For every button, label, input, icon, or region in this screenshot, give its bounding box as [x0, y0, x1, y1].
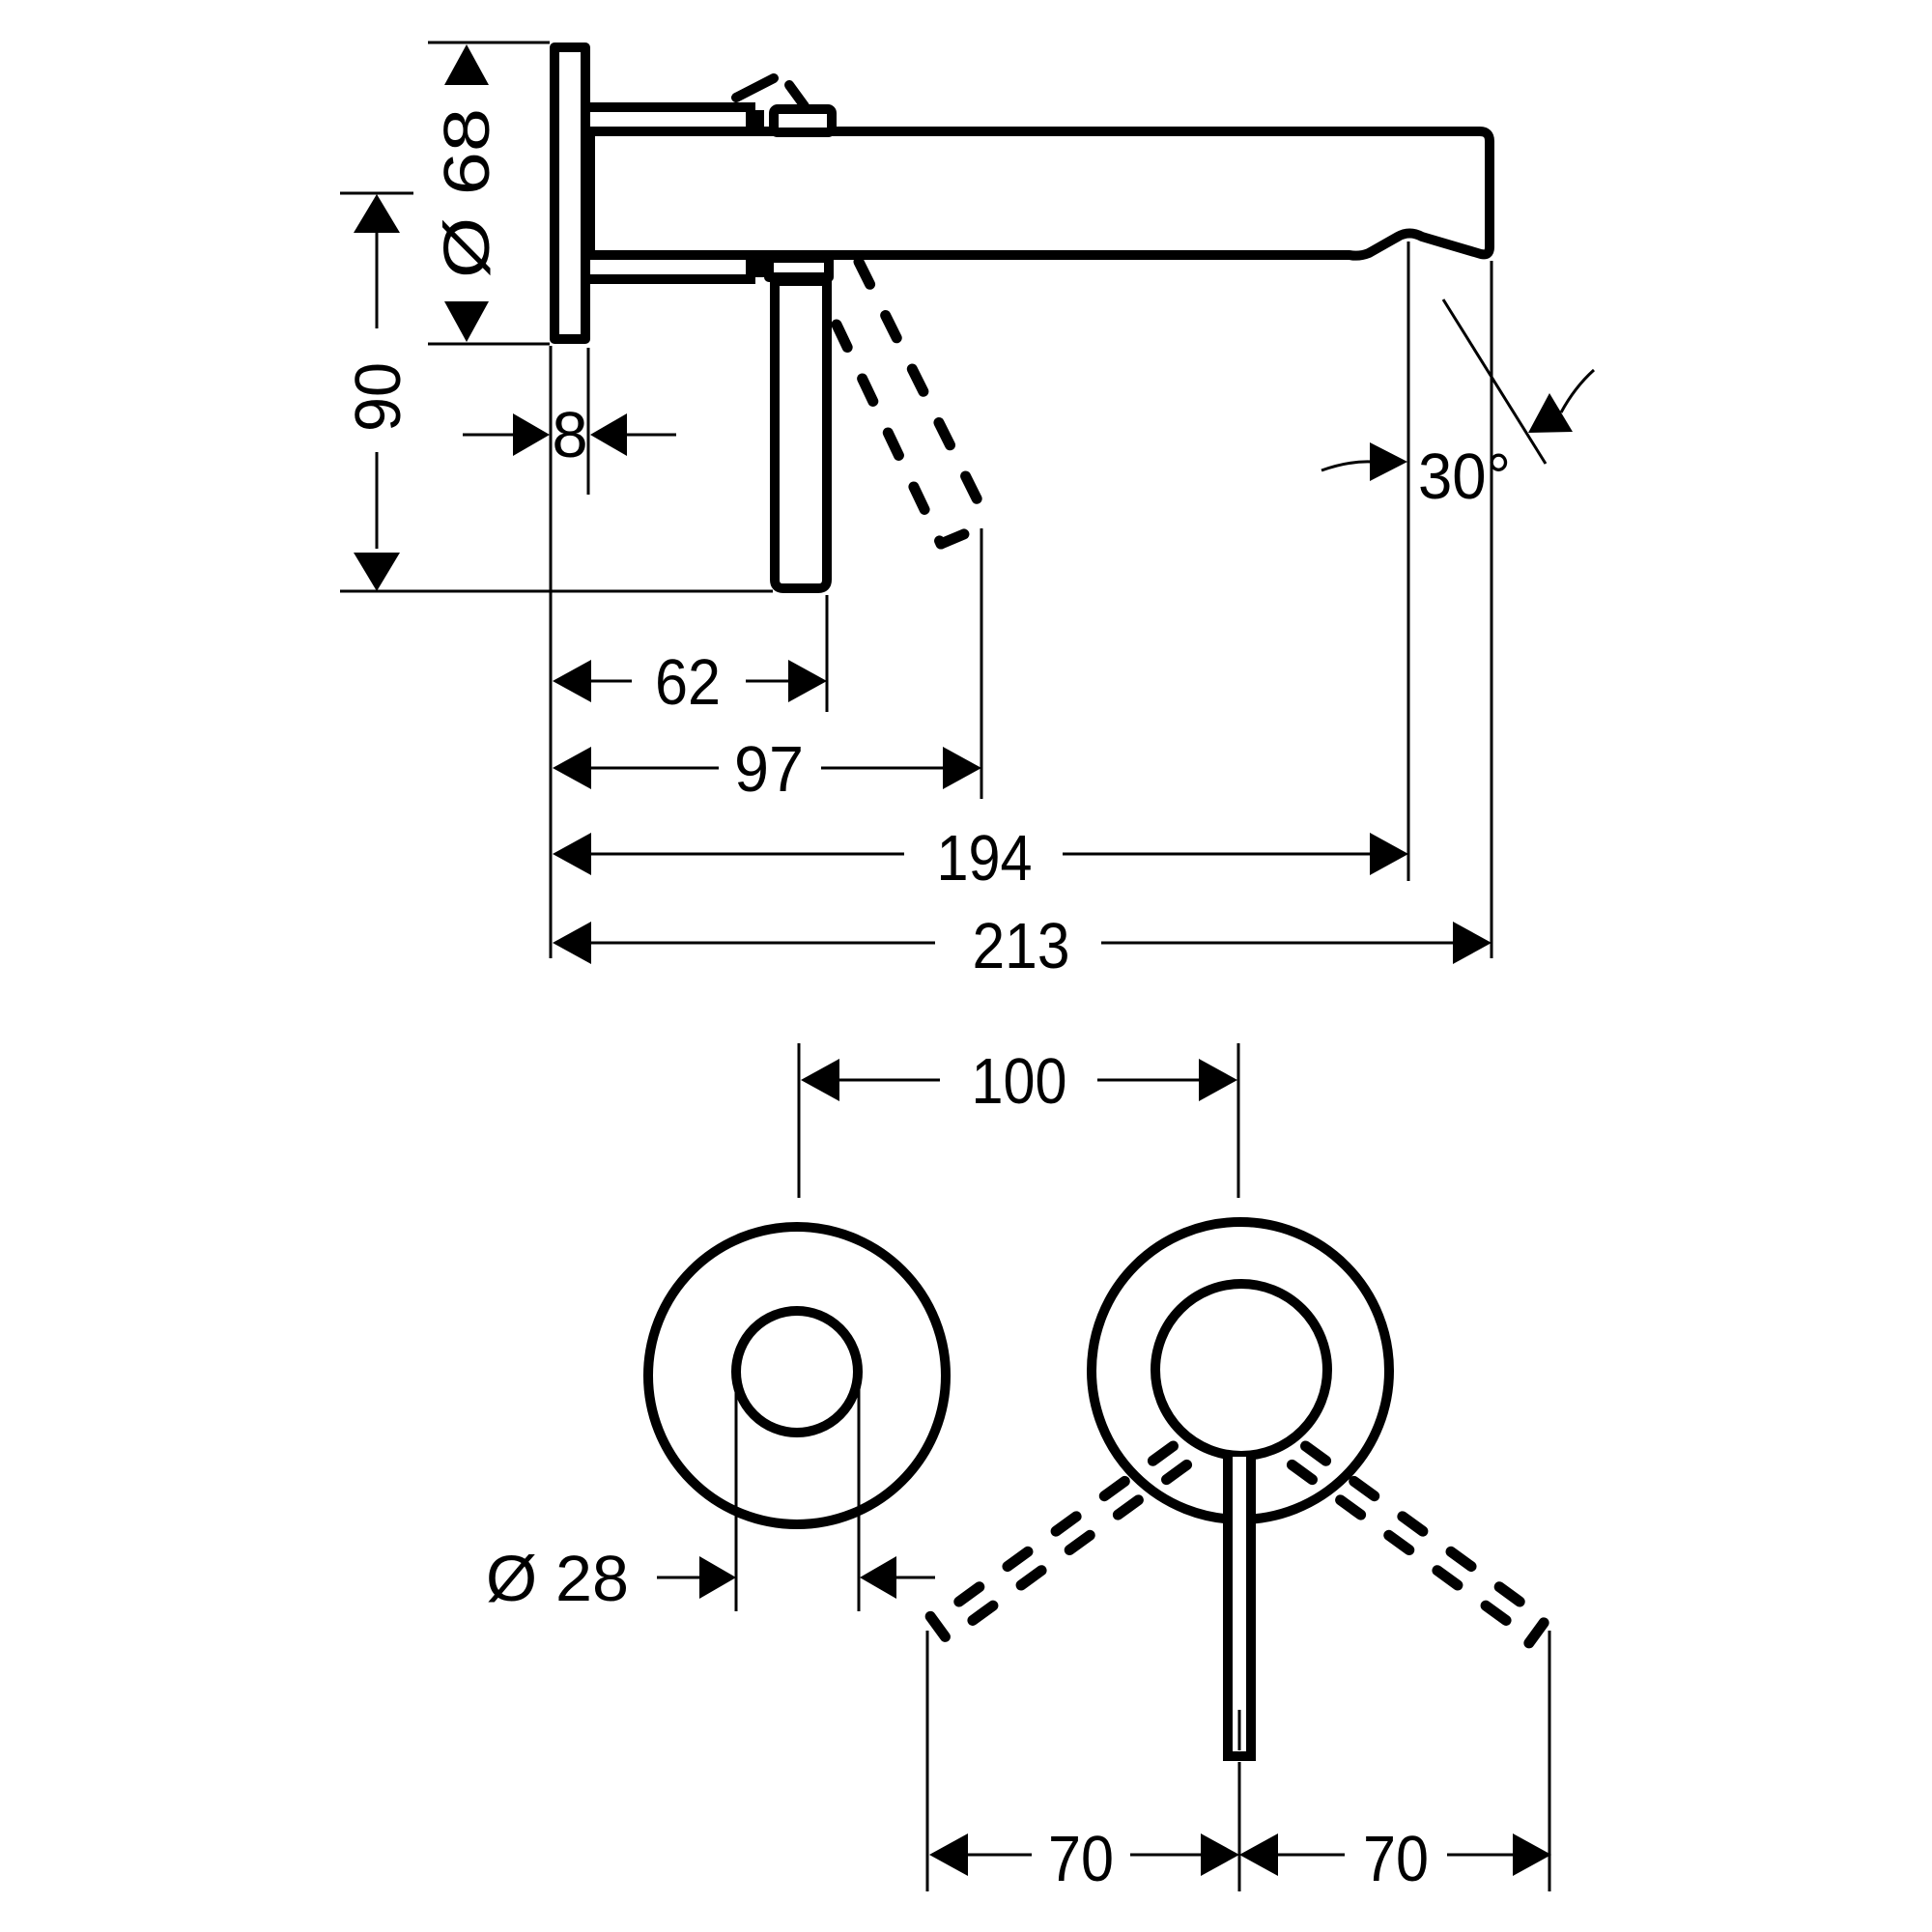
dimension 70 left line — [968, 1854, 1032, 1857]
dimension 97 left arrow — [553, 747, 591, 789]
dimension Ø28 left extension line — [735, 1372, 738, 1611]
dimension 97 line left — [591, 767, 719, 770]
dimension 90 line upper — [376, 233, 379, 328]
right escutcheon outer circle — [1092, 1222, 1389, 1520]
svg-text:Ø 68: Ø 68 — [431, 108, 503, 278]
dimension 62 left arrow — [553, 660, 591, 702]
gap stub upper — [754, 110, 764, 129]
svg-text:8: 8 — [552, 399, 587, 471]
mixer handle rod left line — [1223, 1457, 1233, 1756]
dimension 213 line right — [1101, 942, 1453, 945]
dimension 100 line left — [839, 1079, 940, 1082]
upper inlet pipe — [590, 107, 751, 131]
dimension 70 center extension line upper segment — [1238, 1710, 1241, 1750]
dimension 194 line right — [1063, 853, 1370, 856]
left escutcheon outer circle — [648, 1227, 946, 1524]
dashed handle up-position dash 2 — [789, 85, 805, 106]
dashed handle open position line right — [859, 262, 989, 524]
dimension 97 right extension line — [980, 528, 983, 799]
dimension 97 right arrow — [943, 747, 981, 789]
handle lever (closed position) — [775, 281, 827, 588]
handle base — [769, 258, 829, 277]
dimension 90 line lower — [376, 452, 379, 549]
dimension 8 left tail — [463, 434, 515, 437]
dashed handle swung right — [1289, 1442, 1548, 1643]
dimension 70 left extension line — [926, 1631, 929, 1891]
dimension 70 center arrow right — [1239, 1833, 1278, 1876]
lower outlet pipe — [590, 255, 751, 279]
dimension Ø28 right tail — [896, 1577, 935, 1579]
dimension 213 line left — [591, 942, 935, 945]
dimension 194 right arrow — [1370, 833, 1408, 875]
dimension 213 left arrow — [553, 922, 591, 964]
dimension 194 right extension line — [1407, 241, 1410, 881]
dimension 70 right extension line — [1548, 1631, 1551, 1891]
dimension 213 right arrow — [1453, 922, 1492, 964]
dimension 100 left extension line — [798, 1043, 801, 1198]
dimension 70 right line — [1278, 1854, 1345, 1857]
dimension 62 right arrow — [788, 660, 827, 702]
svg-text:62: 62 — [655, 646, 721, 719]
dashed handle open position line left — [837, 325, 941, 544]
dimension 8 left arrow — [513, 413, 550, 456]
30 degree left leader arrow — [1370, 442, 1407, 481]
svg-text:90: 90 — [342, 362, 414, 432]
wall plate — [554, 47, 585, 339]
dimension 100 right extension line — [1237, 1043, 1240, 1198]
30 degree right leader tail — [1561, 370, 1594, 412]
svg-text:213: 213 — [973, 910, 1070, 982]
dimension 213 right extension line — [1491, 261, 1493, 958]
svg-text:70: 70 — [1363, 1823, 1429, 1895]
dimension Ø28 right arrow — [860, 1556, 896, 1599]
dimension Ø28 left arrow — [699, 1556, 736, 1599]
30 degree right leader arrow — [1528, 393, 1573, 433]
dimension 90 bottom arrow — [354, 553, 400, 591]
spout body outline — [590, 131, 1490, 256]
dimension 90 top arrow — [354, 194, 400, 233]
extension line plate right edge — [587, 348, 590, 495]
dashed handle swung left — [930, 1442, 1189, 1643]
dimension Ø28 left tail — [657, 1577, 699, 1579]
dashed handle up-position dash 1 — [736, 78, 774, 98]
dimension 8 right tail — [627, 434, 676, 437]
svg-text:70: 70 — [1048, 1823, 1114, 1895]
dimension 70 center extension line — [1238, 1762, 1241, 1891]
left extension line from wall plate — [550, 346, 553, 958]
30 degree aerator axis line — [1443, 299, 1546, 464]
svg-text:30°: 30° — [1418, 440, 1511, 513]
svg-text:100: 100 — [972, 1045, 1067, 1118]
dimension 100 line right — [1097, 1079, 1201, 1082]
mixer handle rod fill — [1223, 1457, 1256, 1756]
dimension 100 right arrow — [1199, 1059, 1237, 1101]
svg-text:Ø 28: Ø 28 — [486, 1543, 629, 1615]
dimension 70 left arrow — [929, 1833, 968, 1876]
dimension 62 right extension line — [826, 595, 829, 712]
dimension Ø68 top arrow — [444, 44, 489, 85]
mixer handle rod end cap — [1223, 1751, 1256, 1761]
dimension Ø68 bottom arrow — [444, 301, 489, 342]
dimension 70 left line b — [1130, 1854, 1201, 1857]
dimension 97 line right — [821, 767, 945, 770]
right escutcheon inner circle — [1155, 1284, 1327, 1456]
dimension 62 line right — [746, 680, 789, 683]
dimension 62 line left — [591, 680, 632, 683]
dashed handle open position end cap — [941, 524, 989, 544]
dimension 90 bottom extension line — [340, 590, 773, 593]
dimension 90 top extension line — [340, 192, 413, 195]
dimension 100 left arrow — [801, 1059, 839, 1101]
30 degree left leader tail — [1321, 462, 1372, 470]
dimension 194 line left — [591, 853, 904, 856]
dimension Ø28 right extension line — [858, 1372, 861, 1611]
dimension 70 right line b — [1447, 1854, 1513, 1857]
dimension Ø68 top extension line — [428, 42, 550, 44]
dimension 194 left arrow — [553, 833, 591, 875]
cartridge housing — [774, 109, 832, 132]
svg-text:97: 97 — [734, 733, 804, 806]
dimension Ø68 bottom extension line — [428, 343, 550, 346]
mixer handle rod right line — [1246, 1457, 1256, 1756]
gap stub lower — [754, 258, 764, 277]
svg-text:194: 194 — [937, 822, 1033, 895]
dimension 70 right arrow — [1513, 1833, 1551, 1876]
dimension 70 center arrow left — [1201, 1833, 1239, 1876]
left escutcheon inner circle — [736, 1311, 858, 1433]
dimension 8 right arrow — [590, 413, 627, 456]
